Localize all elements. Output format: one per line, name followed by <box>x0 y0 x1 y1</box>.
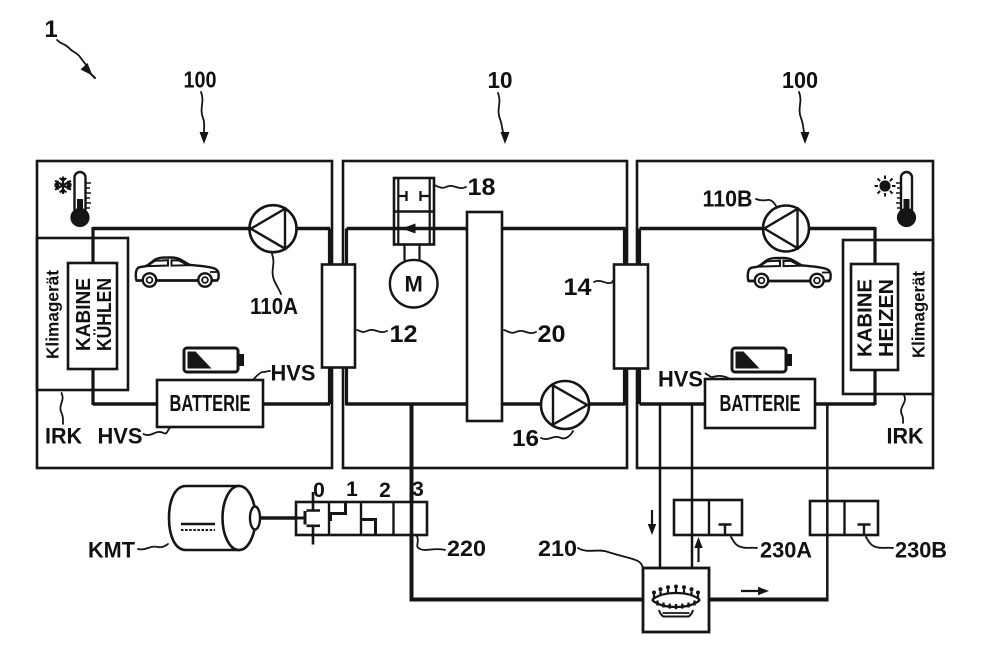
wire left heat-exchanger bar <box>91 227 94 405</box>
svg-text:KABINE: KABINE <box>855 279 877 357</box>
label 100 right with arrow <box>782 67 818 144</box>
svg-text:100: 100 <box>184 67 217 93</box>
label KABINE KUEHLEN (rotated) <box>73 278 116 351</box>
svg-text:BATTERIE: BATTERIE <box>720 390 801 416</box>
warm thermometer icon <box>896 172 915 226</box>
Klimageraet box right <box>843 240 933 394</box>
valve 230A <box>674 500 742 535</box>
svg-text:20: 20 <box>538 321 566 348</box>
car icon right <box>748 258 831 287</box>
box 100 right (IRK climate unit) <box>637 161 933 468</box>
valve 220 pipe crossing cell 3 <box>410 502 414 535</box>
snowflake icon <box>55 177 72 195</box>
wire line B right loop through valve 230A to burner <box>691 404 694 568</box>
label KMT with leader <box>88 538 168 563</box>
cold thermometer icon <box>71 172 91 226</box>
wire stub middle side of 12 top <box>345 229 348 267</box>
svg-text:14: 14 <box>564 274 593 301</box>
heat exchanger 14 (middle/right interface) <box>614 265 648 369</box>
svg-text:3: 3 <box>412 478 424 501</box>
wire line C right loop through valve 230B to supply line <box>826 404 829 601</box>
svg-text:10: 10 <box>488 67 513 93</box>
flow arrow right on supply line <box>741 587 769 595</box>
svg-text:210: 210 <box>538 536 577 561</box>
pump 110B <box>763 206 809 252</box>
svg-text:Klimagerät: Klimagerät <box>43 270 63 359</box>
valve 220 detent symbols <box>307 492 321 545</box>
valve 220 position numbers <box>313 478 424 502</box>
wire right loop top pipe <box>640 227 876 230</box>
flow arrow up beside line B <box>694 537 702 562</box>
wire right heat-exchanger bar <box>873 227 876 405</box>
svg-text:BATTERIE: BATTERIE <box>170 390 251 416</box>
wire stub right side of 14 bottom <box>638 367 641 404</box>
label IRK left with leader <box>45 393 83 449</box>
wire line A right loop to burner <box>659 404 662 568</box>
battery icon left <box>184 348 244 372</box>
battery icon right <box>732 348 792 372</box>
svg-text:IRK: IRK <box>45 424 83 449</box>
wire stub middle side of 14 top <box>623 229 626 267</box>
svg-text:2: 2 <box>379 479 391 502</box>
burner 210 box <box>643 568 709 632</box>
svg-text:Klimagerät: Klimagerät <box>909 271 929 358</box>
svg-text:18: 18 <box>468 174 496 201</box>
svg-text:1: 1 <box>346 478 358 501</box>
label 230A with leader <box>731 537 812 563</box>
label 14 with leader <box>564 274 614 301</box>
svg-text:HVS: HVS <box>271 361 316 386</box>
svg-text:220: 220 <box>447 536 486 561</box>
KABINE KUEHLEN box <box>68 263 117 369</box>
valve 220 cell 1 notch <box>331 502 346 521</box>
motor M of valve 18 <box>390 244 438 308</box>
Klimageraet box left <box>37 238 128 390</box>
node 1 label and arrow <box>44 16 95 78</box>
wire supply line valve 220 to burner 210 <box>412 598 644 602</box>
box 100 left (IRK climate unit) <box>37 161 332 468</box>
label 10 middle with arrow <box>488 67 513 144</box>
tank KMT <box>169 486 260 550</box>
heat exchanger 12 (left/middle interface) <box>322 265 355 368</box>
svg-text:230A: 230A <box>760 538 812 563</box>
expansion valve 18 <box>394 178 434 245</box>
svg-text:110B: 110B <box>703 186 753 212</box>
pump 110A <box>250 205 297 252</box>
label KABINE HEIZEN (rotated) <box>855 279 899 357</box>
label IRK right with leader <box>887 395 925 449</box>
svg-text:KABINE: KABINE <box>73 278 95 351</box>
sun icon <box>875 176 896 197</box>
valve 220 (multi-position) <box>296 492 427 545</box>
svg-text:12: 12 <box>390 321 418 348</box>
wire right loop bottom pipe <box>640 402 876 405</box>
wire supply line burner 210 to node C <box>709 598 829 602</box>
car icon left <box>136 258 219 287</box>
svg-text:M: M <box>405 272 423 297</box>
BATTERIE box right <box>705 379 815 428</box>
wire stub left of 12 top <box>328 229 331 267</box>
wire middle loop top pipe <box>347 227 626 230</box>
valve 230B <box>810 501 878 535</box>
flow arrow down beside line A <box>648 510 656 535</box>
valve 220 inlet cap <box>296 511 305 525</box>
svg-text:230B: 230B <box>895 538 947 563</box>
label 110A with leader <box>250 254 298 319</box>
BATTERIE box left <box>157 380 263 427</box>
label HVS right with leader <box>658 367 730 392</box>
wire stub middle side of 12 bottom <box>345 367 348 406</box>
label 110B with leader <box>703 186 778 212</box>
pump 16 <box>541 381 589 429</box>
chiller 20 <box>467 212 502 421</box>
svg-text:100: 100 <box>782 67 818 93</box>
wire stub right side of 14 top <box>638 229 641 267</box>
label 230B with leader <box>866 537 947 563</box>
wire KMT tank to valve 220 <box>256 516 305 519</box>
KABINE HEIZEN box <box>851 264 898 370</box>
wire stub left of 12 bottom <box>328 367 331 404</box>
box 10 middle (central unit) <box>343 161 627 468</box>
label 12 with leader <box>357 321 418 348</box>
label 20 with leader <box>504 321 566 348</box>
wire left loop top pipe <box>93 227 330 230</box>
svg-text:KMT: KMT <box>88 538 135 563</box>
svg-text:HEIZEN: HEIZEN <box>876 279 898 357</box>
label 16 with leader <box>512 425 573 451</box>
label HVS left lower with leader <box>98 424 170 449</box>
valve 220 cell 2 notch <box>362 520 376 536</box>
label 220 with leader <box>417 536 486 561</box>
label 18 with leader <box>434 174 496 201</box>
svg-text:0: 0 <box>313 479 325 502</box>
label 100 left with arrow <box>184 67 217 145</box>
svg-text:1: 1 <box>44 16 57 43</box>
wire left loop bottom pipe <box>93 402 330 405</box>
wire middle loop bottom pipe <box>347 402 626 405</box>
svg-text:110A: 110A <box>250 293 298 319</box>
label 210 with leader <box>538 536 643 567</box>
svg-text:HVS: HVS <box>98 424 143 449</box>
svg-text:16: 16 <box>512 425 539 451</box>
label HVS left upper with leader <box>253 361 316 386</box>
svg-text:IRK: IRK <box>887 424 925 449</box>
wire stub middle side of 14 bottom <box>623 367 626 404</box>
svg-text:HVS: HVS <box>658 367 703 392</box>
wire pipe middle loop down to valve 220 <box>410 404 414 602</box>
svg-text:KÜHLEN: KÜHLEN <box>93 278 116 351</box>
